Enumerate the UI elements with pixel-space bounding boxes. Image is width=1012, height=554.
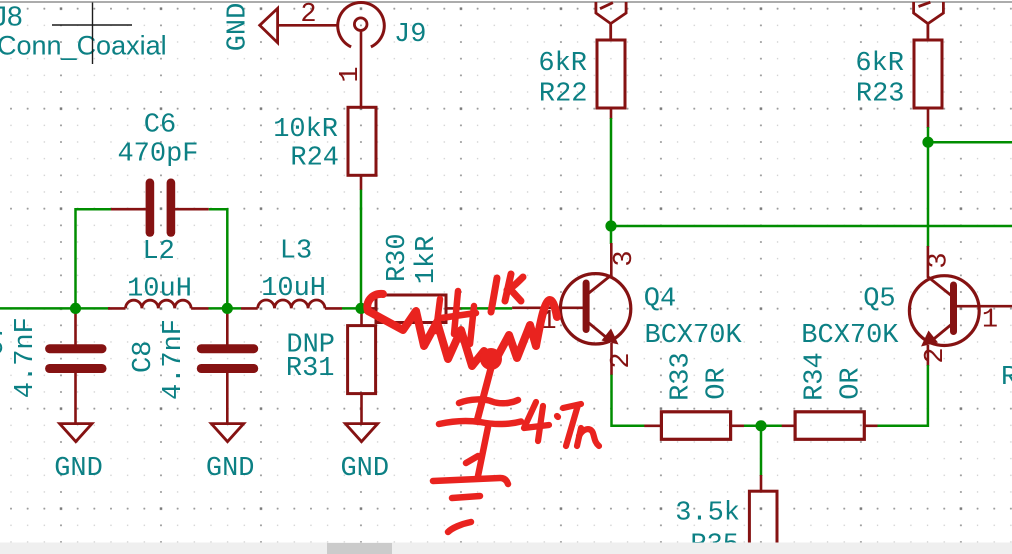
junction node at R24 / R30 / R31 — [355, 303, 366, 314]
svg-text:GND: GND — [223, 3, 253, 52]
wire main bus y=308 left edge to L2 — [0, 307, 110, 310]
wire L3 to node 3 — [342, 307, 368, 310]
svg-text:BCX70K: BCX70K — [645, 321, 743, 351]
svg-text:6kR: 6kR — [538, 49, 587, 79]
pin 1 of J9 (stub down to R24) — [360, 31, 363, 109]
svg-text:L2: L2 — [142, 237, 174, 267]
resistor R24 body — [348, 107, 376, 175]
svg-text:OR: OR — [837, 367, 867, 399]
resistor R23 body — [914, 40, 942, 108]
transistor Q4 emitter pin — [610, 343, 613, 375]
resistor R34 right pin stub — [864, 424, 877, 427]
capacitor C6 right pin stub — [175, 208, 209, 211]
wire R33 to junction — [744, 425, 761, 428]
svg-text:10uH: 10uH — [261, 274, 326, 304]
resistor R34 left pin stub — [782, 424, 795, 427]
inductor L2 winding — [126, 300, 192, 308]
wire junction down to R35 — [760, 426, 763, 476]
capacitor C6 right plate — [167, 179, 176, 237]
resistor R22 bottom pin stub — [610, 108, 613, 119]
svg-text:OR: OR — [702, 367, 732, 399]
capacitor C8 bottom pin stub — [226, 373, 229, 424]
svg-text:GND: GND — [206, 454, 255, 484]
svg-text:GND: GND — [54, 454, 103, 484]
resistor R30 left pin stub — [366, 307, 376, 310]
hand-drawn annotation: capacitor plates — [439, 399, 521, 424]
wire C6 loop right side — [209, 209, 228, 308]
capacitor C6 left pin stub — [111, 208, 146, 211]
junction node at C7 / bus — [70, 303, 81, 314]
junction node R23 / bus right — [922, 137, 933, 148]
resistor R31 body — [348, 326, 376, 394]
svg-text:R33: R33 — [666, 352, 696, 401]
resistor R35 body (cut by scrollbar) — [749, 491, 777, 554]
transistor Q4 base pin — [512, 306, 583, 309]
capacitor C6 left plate — [146, 179, 155, 237]
capacitor C7 top pin stub — [74, 308, 77, 344]
svg-text:Q5: Q5 — [863, 285, 895, 315]
wire bus y=142 to right edge — [928, 141, 1012, 144]
svg-text:1: 1 — [336, 66, 366, 82]
transistor Q5 collector pin — [927, 246, 930, 278]
svg-text:J8: J8 — [0, 1, 23, 32]
svg-text:C6: C6 — [144, 111, 176, 141]
resistor R30 right pin stub — [446, 307, 461, 310]
svg-text:1kR: 1kR — [412, 236, 442, 285]
wire L2 to node 2 — [209, 307, 242, 310]
resistor R24 bottom pin stub — [360, 175, 363, 190]
svg-text:3.5k: 3.5k — [675, 499, 740, 529]
capacitor C8 top plate — [197, 344, 258, 353]
svg-text:BCX70K: BCX70K — [801, 321, 899, 351]
inductor L3 left pin stub — [241, 307, 258, 310]
svg-text:3: 3 — [610, 250, 640, 266]
ground symbol under C7 — [60, 424, 92, 442]
resistor R34 body (horizontal) — [795, 412, 864, 440]
capacitor C8 bottom plate — [197, 364, 258, 373]
wire junction down to Q5 collector — [927, 142, 930, 247]
resistor R31 top pin stub — [360, 308, 363, 326]
transistor Q5 emitter pin — [927, 345, 930, 366]
svg-text:4.7nF: 4.7nF — [159, 319, 189, 400]
svg-text:2: 2 — [300, 0, 316, 30]
resistor R31 bottom pin stub — [360, 394, 363, 424]
transistor Q4 emitter arrowhead — [602, 329, 619, 345]
svg-text:2: 2 — [607, 352, 637, 368]
transistor Q5 collector diagonal — [928, 277, 953, 297]
junction node R33 / R34 / R35 — [755, 420, 766, 431]
svg-text:R34: R34 — [801, 352, 831, 401]
inductor L2 right pin stub — [191, 307, 208, 310]
svg-text:C8: C8 — [129, 341, 159, 373]
svg-text:R30: R30 — [383, 233, 413, 282]
svg-text:1: 1 — [982, 306, 998, 336]
power symbol above R22 — [596, 2, 626, 41]
connector J9 center pin circle — [354, 18, 367, 31]
power symbol above R23 — [914, 2, 944, 41]
wire junction to R34 — [761, 425, 782, 428]
transistor Q5 body circle (mirrored) — [909, 276, 979, 346]
svg-text:Q4: Q4 — [644, 285, 676, 315]
pin 2 of J9 (wire to ground) — [278, 24, 338, 27]
wire R24 to node at y=308 — [360, 190, 363, 309]
transistor Q5 emitter diagonal — [930, 324, 953, 343]
wire junction to Q4 collector — [610, 226, 613, 244]
svg-text:R23: R23 — [856, 80, 905, 110]
inductor L3 right pin stub — [325, 307, 342, 310]
transistor Q4 base bar — [583, 280, 590, 334]
connector J9 outer shield circle — [338, 3, 385, 47]
wire bus y=226 to right edge — [611, 225, 1012, 228]
transistor Q5 base bar — [950, 282, 957, 336]
svg-text:C7: C7 — [0, 324, 11, 356]
junction node at C8 / bus — [222, 303, 233, 314]
resistor R23 bottom pin stub — [927, 108, 930, 128]
hand-drawn annotation: lower capacitor sketch — [433, 427, 508, 532]
svg-text:L3: L3 — [280, 237, 312, 267]
svg-text:J9: J9 — [394, 20, 426, 50]
resistor R33 right pin stub — [731, 424, 744, 427]
transistor Q5 base pin to right edge — [957, 305, 1012, 308]
wire C6 loop left side — [76, 209, 112, 308]
svg-text:R31: R31 — [286, 354, 335, 384]
wire R23 to junction — [927, 127, 930, 142]
capacitor C7 bottom plate — [45, 364, 106, 373]
transistor Q4 collector pin — [610, 243, 613, 276]
cursor crosshair — [52, 3, 132, 65]
transistor Q5 emitter arrowhead — [921, 331, 938, 347]
hand-drawn annotation: resistor zigzag over R30..Q4 — [367, 294, 557, 366]
svg-text:10kR: 10kR — [273, 115, 338, 145]
svg-text:470pF: 470pF — [117, 140, 198, 170]
scrollbar thumb — [327, 543, 392, 554]
resistor R22 body — [597, 40, 625, 108]
transistor Q4 emitter diagonal — [587, 322, 610, 341]
wire Q4 emitter down and right to R33 — [612, 375, 646, 426]
transistor Q4 body circle — [560, 274, 630, 344]
junction node R22 / Q4 collector / bus — [605, 220, 616, 231]
scrollbar track — [0, 543, 1012, 554]
ground symbol at J9 pin 2 — [260, 8, 278, 42]
svg-text:6kR: 6kR — [855, 49, 904, 79]
svg-text:4.7nF: 4.7nF — [11, 317, 41, 398]
svg-text:GND: GND — [340, 454, 389, 484]
hand-drawn annotation: text 4.7n — [524, 402, 599, 446]
resistor R35 top pin stub — [760, 475, 763, 492]
svg-text:3: 3 — [925, 252, 955, 268]
wire R30 to Q4 base — [461, 307, 512, 310]
hand-drawn annotation: tick marks near R30 — [436, 291, 476, 344]
svg-text:R24: R24 — [290, 144, 339, 174]
resistor R33 body (horizontal) — [661, 412, 730, 440]
resistor R30 body (horizontal) — [376, 295, 446, 323]
capacitor C7 bottom pin stub — [74, 373, 77, 424]
hand-drawn annotation: junction blob and lead — [480, 348, 502, 370]
svg-text:2: 2 — [921, 347, 951, 363]
svg-text:R22: R22 — [539, 80, 588, 110]
resistor R33 left pin stub — [644, 424, 661, 427]
capacitor C7 top plate — [45, 344, 106, 353]
wire R22 to junction — [610, 118, 613, 226]
capacitor C8 top pin stub — [226, 308, 229, 344]
ground symbol under R31 — [345, 424, 377, 442]
inductor L2 left pin stub — [108, 307, 126, 310]
inductor L3 winding — [258, 300, 325, 308]
svg-text:R3: R3 — [1001, 363, 1012, 393]
wire R34 right up to Q5 emitter — [878, 365, 928, 426]
ground symbol under C8 — [211, 424, 243, 442]
transistor Q4 collector diagonal — [587, 275, 612, 295]
svg-text:10uH: 10uH — [127, 275, 192, 305]
svg-text:Conn_Coaxial: Conn_Coaxial — [0, 31, 167, 61]
hand-drawn annotation: text 1k — [491, 274, 523, 312]
